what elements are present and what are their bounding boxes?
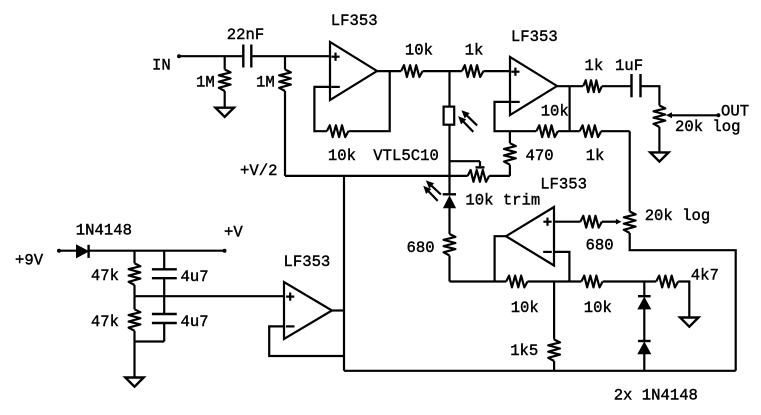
- svg-text:20k log: 20k log: [645, 207, 711, 225]
- svg-text:10k: 10k: [405, 42, 433, 60]
- svg-text:1k5: 1k5: [510, 342, 538, 360]
- svg-text:10k: 10k: [584, 299, 612, 317]
- svg-text:1k: 1k: [585, 57, 604, 75]
- svg-text:4k7: 4k7: [691, 267, 719, 285]
- svg-text:47k: 47k: [91, 267, 119, 285]
- svg-text:+V: +V: [224, 224, 243, 242]
- svg-text:VTL5C10: VTL5C10: [373, 147, 439, 165]
- svg-text:+9V: +9V: [15, 252, 44, 270]
- svg-text:1M: 1M: [196, 74, 215, 92]
- svg-text:47k: 47k: [91, 313, 119, 331]
- svg-text:LF353: LF353: [540, 175, 587, 193]
- svg-text:+V/2: +V/2: [240, 162, 277, 180]
- svg-text:1k: 1k: [465, 42, 484, 60]
- svg-text:LF353: LF353: [284, 253, 331, 271]
- svg-text:680: 680: [586, 237, 614, 255]
- svg-text:10k: 10k: [541, 103, 569, 121]
- svg-text:22nF: 22nF: [227, 26, 264, 44]
- svg-text:4u7: 4u7: [181, 313, 209, 331]
- svg-text:1k: 1k: [586, 147, 605, 165]
- svg-text:IN: IN: [152, 57, 171, 75]
- svg-text:470: 470: [526, 147, 554, 165]
- svg-text:10k: 10k: [328, 147, 356, 165]
- svg-text:4u7: 4u7: [181, 268, 209, 286]
- svg-text:680: 680: [407, 239, 435, 257]
- svg-text:2x 1N4148: 2x 1N4148: [614, 387, 698, 405]
- svg-text:10k trim: 10k trim: [465, 191, 540, 209]
- svg-text:1M: 1M: [256, 74, 275, 92]
- svg-text:1N4148: 1N4148: [76, 222, 132, 240]
- svg-text:LF353: LF353: [511, 28, 558, 46]
- svg-text:LF353: LF353: [331, 12, 378, 30]
- svg-text:10k: 10k: [511, 299, 539, 317]
- svg-text:1uF: 1uF: [615, 57, 643, 75]
- svg-text:20k log: 20k log: [675, 118, 741, 136]
